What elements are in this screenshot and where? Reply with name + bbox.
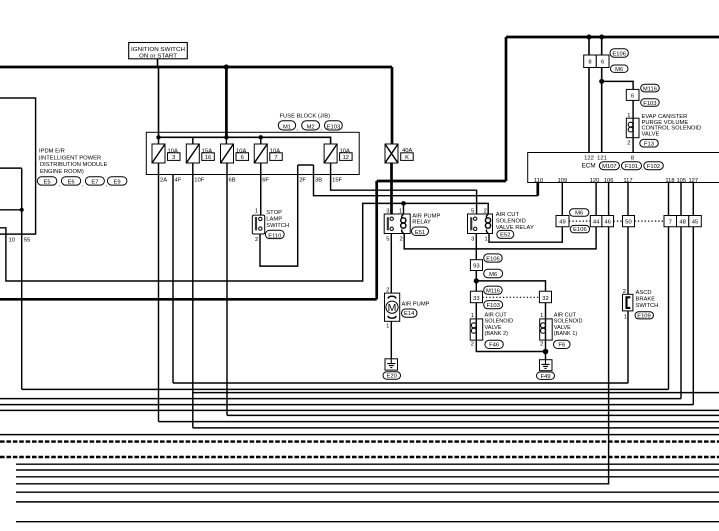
svg-text:16: 16 [205, 155, 211, 161]
junction dot valves common ground node [543, 349, 549, 355]
oval E5 [37, 177, 57, 185]
fuse F3 rating box 3 [168, 153, 181, 161]
oval E106 top [610, 49, 628, 57]
fusible link 40A K [385, 144, 398, 163]
oval M6 mid (connector 49) [570, 209, 589, 216]
svg-text:F49: F49 [541, 374, 551, 380]
fuse F16 15A [186, 144, 199, 163]
svg-text:(BANK 2): (BANK 2) [485, 331, 509, 337]
svg-text:ENGINE ROOM): ENGINE ROOM) [40, 169, 84, 175]
svg-text:2: 2 [399, 236, 402, 242]
air cut solenoid valve relay box [468, 214, 493, 234]
svg-text:122: 122 [584, 155, 594, 161]
svg-text:109: 109 [557, 178, 567, 184]
svg-text:F102: F102 [647, 164, 660, 170]
svg-text:6: 6 [601, 60, 604, 66]
air cut solenoid valve bank1 body [540, 319, 553, 340]
svg-text:110: 110 [534, 178, 543, 184]
fuse F7 10A [254, 144, 267, 163]
oval E106 (connector 93) [484, 254, 503, 262]
junction dot battery line to ECM122 [587, 35, 592, 40]
svg-text:2F: 2F [299, 177, 306, 183]
wire: fuse 16 output 10F down to bus [192, 163, 194, 428]
wire: bank2 valve pin 2 to ground node [476, 340, 545, 351]
svg-text:15F: 15F [332, 177, 342, 183]
svg-text:2: 2 [386, 288, 389, 294]
svg-text:2: 2 [484, 208, 487, 214]
svg-text:AIR CUT: AIR CUT [554, 312, 577, 318]
connector box 49 [556, 216, 569, 227]
stop lamp switch body [252, 215, 264, 234]
svg-text:6: 6 [631, 93, 634, 99]
svg-text:4F: 4F [175, 177, 182, 183]
wire: battery line top right y=37 [506, 36, 719, 39]
svg-text:M107: M107 [602, 164, 617, 170]
svg-text:127: 127 [688, 178, 698, 184]
junction dot fuse bus at F7 [259, 135, 263, 139]
wire: drop from ignition bus into fuse block to fuse 3 bus [158, 67, 160, 137]
svg-text:40A: 40A [402, 148, 412, 154]
IPDM E/R internal circuit edge [0, 167, 22, 169]
svg-text:1: 1 [399, 208, 402, 214]
wire: riser to fuse 16 [192, 137, 194, 144]
svg-text:10A: 10A [168, 149, 178, 155]
wire: bus B5 y=492.2 [16, 491, 719, 493]
svg-text:ASCD: ASCD [636, 290, 652, 296]
oval F46 [485, 340, 503, 348]
svg-text:VALVE: VALVE [485, 325, 502, 331]
oval F102 [644, 162, 664, 170]
svg-text:8: 8 [588, 60, 591, 66]
wire: bus A7 2A y=421.6 [159, 421, 719, 423]
junction dot fuse bus at F3 [156, 135, 160, 139]
wire: ECM120 through connector 44 to air pump relay pin 2 [404, 183, 596, 249]
svg-text:117: 117 [623, 178, 632, 184]
svg-text:2A: 2A [160, 177, 167, 183]
connector box 44 [590, 216, 602, 227]
wire: fuse 7 output 6F to stop lamp switch pin 1 [260, 163, 262, 216]
svg-text:F13: F13 [644, 141, 654, 147]
oval M116 top [641, 84, 660, 92]
svg-text:10A: 10A [236, 149, 246, 155]
air pump relay box [384, 214, 410, 234]
svg-text:E110: E110 [268, 233, 281, 239]
svg-text:106: 106 [604, 178, 614, 184]
svg-text:3: 3 [172, 155, 175, 161]
svg-text:LAMP: LAMP [266, 217, 282, 223]
svg-text:IPDM E/R: IPDM E/R [39, 149, 65, 155]
wire: bus A1 4F to ASCD switch line y=383 [173, 382, 628, 384]
dotted link connector 46 to 50 [614, 220, 623, 222]
svg-text:32: 32 [542, 296, 548, 302]
svg-text:E52: E52 [500, 233, 510, 239]
connector box 45 [689, 216, 702, 227]
wire: heavy battery wire y=181 [377, 180, 506, 183]
oval F49 [537, 372, 555, 379]
svg-text:SOLENOID: SOLENOID [554, 319, 583, 325]
svg-text:AIR CUT: AIR CUT [496, 212, 520, 218]
EVAP canister purge volume control solenoid valve body [626, 118, 639, 138]
oval F6 [554, 340, 571, 348]
svg-text:93: 93 [473, 264, 479, 270]
svg-text:1: 1 [627, 113, 630, 119]
wire: IPDM internal node stub [0, 209, 22, 211]
wire: bus A2 IPDM55 to ECM118 y=390.7 [22, 388, 669, 390]
oval F103 (connector 33) [484, 301, 503, 309]
fuse F16 rating box 16 [202, 153, 215, 161]
svg-text:105: 105 [676, 178, 686, 184]
svg-text:6F: 6F [262, 177, 269, 183]
svg-text:M116: M116 [486, 289, 500, 295]
fuse F12 rating box 12 [340, 153, 353, 161]
svg-text:BRAKE: BRAKE [636, 296, 656, 302]
wire: bus A6 6B y=415.4 [227, 414, 719, 416]
svg-text:2: 2 [627, 141, 630, 147]
wire: connector 33 to bank2 valve pin 1 [475, 303, 477, 319]
svg-text:ON or START: ON or START [139, 53, 178, 59]
svg-text:VALVE RELAY: VALVE RELAY [496, 225, 534, 231]
svg-text:E14: E14 [404, 311, 415, 317]
dotted link connector 50 to 7 [635, 220, 665, 222]
junction dot battery line to ECM121 [599, 35, 604, 40]
wire: ECM pin 122 drop through connector 8 [588, 37, 590, 153]
junction dot EVAP branch [599, 79, 604, 84]
connector box 50 [623, 216, 635, 227]
wire: air pump relay pin 5 to air pump motor pin 2 [390, 234, 392, 294]
connector box 8 (E106) [584, 55, 597, 68]
svg-text:DISTRIBUTION MODULE: DISTRIBUTION MODULE [40, 162, 107, 168]
fusible link rating box K [401, 153, 414, 161]
svg-text:E20: E20 [387, 374, 397, 380]
svg-text:33: 33 [473, 296, 479, 302]
oval F13 [640, 139, 659, 147]
ECM box [528, 153, 719, 183]
fuse F6 rating box 6 [236, 153, 249, 161]
fuse F6 10A [221, 144, 234, 163]
wire: riser to fuse 3 [158, 137, 160, 144]
svg-text:M1: M1 [283, 124, 291, 130]
oval M2 [302, 121, 320, 130]
svg-text:IGNITION SWITCH: IGNITION SWITCH [131, 47, 185, 53]
wire: junction to connector 32 branch [476, 281, 545, 291]
wire: IPDM pin 10 to relay coil feed line [0, 203, 488, 281]
svg-text:118: 118 [665, 178, 674, 184]
wire: ASCD brake switch pin 1 down to bus A1 [627, 311, 629, 383]
svg-text:E51: E51 [415, 230, 425, 236]
svg-text:1: 1 [255, 209, 258, 215]
oval M6 (connector 93) [484, 269, 503, 277]
svg-text:2: 2 [623, 289, 626, 295]
svg-text:SWITCH: SWITCH [636, 303, 659, 309]
wire: 40A link to air pump relay pin 3 [390, 163, 393, 214]
wire: dashed bus D2 y=457 [0, 456, 719, 458]
connector box 48 [677, 216, 689, 227]
svg-text:STOP: STOP [266, 210, 282, 216]
oval M6 top [611, 65, 629, 72]
svg-text:K: K [405, 155, 409, 161]
svg-text:1: 1 [624, 315, 627, 321]
IPDM E/R outer box [0, 98, 36, 234]
svg-text:44: 44 [593, 220, 600, 226]
svg-text:(BANK 1): (BANK 1) [554, 331, 578, 337]
svg-text:46: 46 [604, 220, 610, 226]
svg-text:M6: M6 [575, 211, 583, 217]
svg-text:121: 121 [597, 155, 607, 161]
wire: bus B4 y=483.8 to ECM106 riser [16, 183, 609, 484]
wire: bus B2 y=470 [16, 469, 719, 471]
wire: riser to fuse 6 [225, 137, 227, 144]
svg-text:10A: 10A [340, 149, 350, 155]
oval M1 [278, 121, 295, 130]
wire: fuse 3 output 2A down to bus [158, 163, 160, 422]
svg-text:1: 1 [471, 313, 474, 319]
svg-text:SWITCH: SWITCH [266, 223, 289, 229]
svg-text:E7: E7 [91, 179, 98, 185]
svg-text:M6: M6 [489, 272, 497, 278]
svg-text:48: 48 [679, 220, 685, 226]
connector box 93 [470, 260, 482, 271]
wire: heavy battery wire y=299.3 to left edge [0, 298, 377, 301]
dotted link connector 33 to 32 [483, 296, 540, 298]
wire: ignition main feed bus y=67 [0, 66, 392, 69]
oval E103 [325, 121, 343, 130]
svg-text:F46: F46 [489, 343, 499, 349]
svg-text:E109: E109 [637, 313, 651, 319]
oval E7 [85, 177, 104, 185]
svg-text:F6: F6 [558, 343, 565, 349]
svg-text:AIR PUMP: AIR PUMP [402, 301, 430, 307]
wire: bus B1 y=464.2 [16, 463, 719, 465]
svg-text:50: 50 [625, 220, 631, 226]
wire: 2F terminal down to stop lamp switch pin 2 [260, 165, 298, 266]
svg-text:VALVE: VALVE [554, 325, 571, 331]
junction dot ignition bus to fuse 6 drop [224, 64, 229, 69]
wire: ECM109 through connector 49 to air cut relay pin 1 [489, 183, 562, 243]
ground symbol F49 [540, 360, 553, 371]
air pump relay switch contact [387, 217, 394, 231]
junction dot air cut valves feed split [474, 278, 479, 283]
oval E9 [107, 177, 127, 185]
connector box 6 (M6) [596, 55, 609, 68]
svg-text:SOLENOID: SOLENOID [485, 319, 514, 325]
svg-text:F101: F101 [625, 164, 638, 170]
svg-text:6: 6 [241, 155, 244, 161]
connector box 7 [664, 216, 677, 227]
svg-text:AIR CUT: AIR CUT [485, 312, 508, 318]
oval M107 [599, 162, 619, 170]
wire: fuse block internal top bus y=136 [159, 137, 331, 144]
wire: 3B terminal to ECM pin 110 line [314, 165, 538, 196]
junction dot relay coil feed at air pump relay pin 1 [401, 201, 406, 206]
svg-text:E106: E106 [573, 227, 587, 233]
connector box 33 [470, 291, 482, 303]
svg-text:10A: 10A [270, 149, 280, 155]
connector box 46 [602, 216, 614, 227]
svg-text:E5: E5 [43, 179, 50, 185]
ground symbol E20 [385, 359, 398, 370]
oval E52 [497, 230, 514, 238]
wire: fuse 12 output 15F to air cut relay pin 5 [331, 163, 477, 214]
air cut solenoid valve bank2 body [470, 319, 483, 340]
junction dot IPDM internal [20, 208, 24, 212]
connector box 6 (M116/F103) [626, 89, 639, 100]
svg-text:M116: M116 [643, 86, 657, 92]
wire: battery feed to 40A fusible link [391, 67, 394, 144]
svg-text:ECM: ECM [582, 162, 596, 169]
svg-text:3: 3 [386, 208, 389, 214]
svg-text:6B: 6B [229, 177, 236, 183]
air pump motor body [385, 293, 400, 321]
wire: bus A5 y=410.4 [0, 409, 719, 411]
wire: bus A2b from 10F tap y=392.6 [193, 392, 719, 394]
junction dot fuse bus at F6 [224, 135, 228, 139]
oval E110 [265, 230, 284, 238]
svg-text:F103: F103 [643, 101, 656, 107]
wire: drop from ignition bus junction to fuse 6 top [225, 67, 228, 137]
wire: heavy battery wire x=506 down [505, 37, 508, 181]
wire: EVAP valve branch from node to connector 6 M116 [602, 81, 633, 89]
wire: ECM117 through connector 50 to ASCD brake switch [627, 183, 629, 295]
svg-text:8: 8 [631, 155, 634, 161]
ignition switch box [129, 43, 188, 59]
wire: air cut relay pin 3 through connector 93 to junction [475, 234, 477, 292]
svg-text:5: 5 [471, 208, 474, 214]
wire: fuse block 2F-3B tie bar [298, 164, 314, 166]
svg-text:M2: M2 [307, 124, 315, 130]
wire: air pump motor pin 1 to ground E20 [390, 321, 392, 359]
svg-text:5: 5 [386, 236, 389, 242]
wire: ECM118 through connector 7 to bus A2 [668, 183, 670, 390]
svg-text:E6: E6 [67, 179, 74, 185]
wire: fuse 6 output 6B down to bus [226, 163, 228, 415]
connector box 32 [539, 291, 551, 303]
oval E106 mid (connector 49) [570, 225, 589, 232]
oval F103 top [641, 99, 660, 107]
svg-text:55: 55 [24, 237, 30, 243]
svg-text:3B: 3B [315, 177, 322, 183]
svg-text:7: 7 [669, 220, 672, 226]
svg-text:1: 1 [540, 313, 543, 319]
svg-text:E103: E103 [327, 124, 341, 130]
oval M116 (connector 33) [484, 286, 503, 294]
wire: ECM127 through connector 45 to bus A4 [692, 183, 694, 405]
wire: IPDM pin 55 down [21, 168, 23, 389]
oval E20 [383, 372, 401, 379]
wire: bank1 valve pin 2 to ground node to F49 [545, 340, 547, 360]
svg-text:E9: E9 [114, 179, 121, 185]
air cut relay coil [485, 215, 490, 233]
wire: ECM105 through connector 48 to bus A3 [680, 183, 682, 399]
svg-text:7: 7 [274, 155, 277, 161]
svg-text:1: 1 [484, 236, 487, 242]
air cut relay switch contact [470, 217, 477, 231]
wire: ECM pin 110 heavy stub [536, 183, 539, 196]
wire: bus A3 to ECM105 y=397.7 [0, 398, 681, 400]
svg-text:120: 120 [590, 178, 600, 184]
air pump relay coil [401, 215, 406, 233]
wire: EVAP valve pin 1 feed [632, 100, 634, 118]
svg-text:E106: E106 [486, 256, 500, 262]
fuse F12 10A [324, 144, 337, 163]
dotted link connector 49 to 44 [569, 220, 590, 222]
wire: bus A8 10F y=427.9 [193, 427, 719, 429]
svg-text:F103: F103 [487, 303, 500, 309]
wire: bus A9 y=434.6 [0, 434, 719, 436]
oval E14 [402, 309, 418, 317]
fuse block (J/B) box [146, 132, 359, 174]
wire: EVAP valve pin 2 to ECM pin 8 [632, 138, 634, 153]
oval E109 [635, 312, 654, 319]
wire: dashed bus D1 y=441.6 [0, 440, 719, 442]
wire: 4F terminal down [172, 175, 174, 384]
svg-text:M: M [388, 302, 397, 314]
svg-text:M6: M6 [615, 67, 623, 73]
wire: bus B3 y=476.8 [16, 476, 719, 478]
wire: bus B6 y=501.9 [16, 501, 719, 503]
svg-text:VALVE: VALVE [642, 132, 660, 138]
wire: bus A4 to ECM127 y=404.2 [0, 404, 693, 406]
svg-text:2: 2 [540, 342, 543, 348]
wire: connector 32 to bank1 valve pin 1 [545, 303, 547, 319]
svg-text:(INTELLIGENT POWER: (INTELLIGENT POWER [39, 155, 102, 161]
svg-text:1: 1 [386, 324, 389, 330]
svg-text:FUSE BLOCK (J/B): FUSE BLOCK (J/B) [280, 114, 331, 120]
svg-text:2: 2 [255, 237, 258, 243]
svg-text:3: 3 [471, 236, 474, 242]
svg-text:SOLENOID: SOLENOID [496, 218, 526, 224]
oval E51 [412, 227, 429, 235]
svg-text:RELAY: RELAY [412, 220, 431, 226]
wire: riser to fuse 7 [260, 137, 262, 144]
wire: heavy battery wire x=376.7 down [375, 181, 378, 299]
wire: ECM pin 121 drop through connector 6 [601, 37, 603, 153]
wire: bus B7 y=521.7 [16, 521, 719, 523]
svg-text:12: 12 [343, 155, 349, 161]
oval E6 [61, 177, 80, 185]
fuse F7 rating box 7 [270, 153, 283, 161]
svg-text:10F: 10F [194, 177, 204, 183]
wire: air pump relay pin 1 coil drop [403, 203, 405, 214]
fuse F3 10A [152, 144, 165, 163]
svg-text:10: 10 [8, 237, 14, 243]
svg-text:E106: E106 [612, 51, 626, 57]
oval F101 [622, 162, 642, 170]
svg-text:49: 49 [559, 220, 565, 226]
svg-text:2: 2 [471, 342, 474, 348]
wire: ignition switch drop to feed bus [157, 59, 159, 67]
ASCD brake switch body [623, 294, 633, 311]
svg-text:15A: 15A [202, 149, 212, 155]
svg-text:45: 45 [692, 220, 698, 226]
